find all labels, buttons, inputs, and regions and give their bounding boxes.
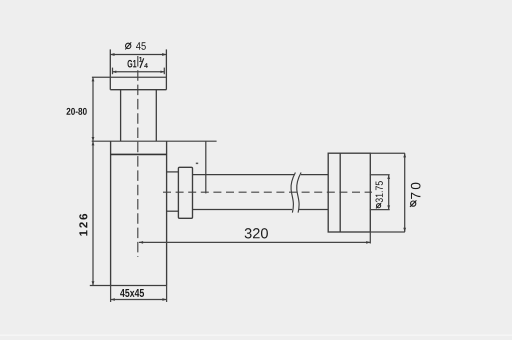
dim 20-80 xyxy=(92,77,95,141)
inlet tube xyxy=(121,90,157,142)
d70 label (rotated) xyxy=(410,183,421,207)
dim d45 xyxy=(110,53,166,56)
dim G1 1/4 xyxy=(113,68,165,75)
outlet stub xyxy=(167,172,179,211)
126 label (rotated) xyxy=(79,214,87,236)
320 label xyxy=(245,228,268,238)
inlet flange body (top fitting) xyxy=(110,49,166,89)
20-80 label xyxy=(66,108,86,115)
G1 1/4 label xyxy=(127,57,147,68)
centerline horizontal (wall-tube axis) xyxy=(163,191,372,193)
compression nut xyxy=(178,167,192,218)
wall tube (right of break) xyxy=(298,175,328,210)
dim 45x45 xyxy=(111,286,167,303)
dim d31.75 xyxy=(370,175,390,210)
wall-tube insertion reference line xyxy=(205,141,207,193)
flange division / 20-80 top extension line xyxy=(92,76,166,78)
dim d70 xyxy=(370,153,406,232)
stray tick xyxy=(196,163,198,165)
top assembly line (body top) xyxy=(92,140,217,142)
wall flange xyxy=(328,153,370,232)
centerline vertical (trap body axis) xyxy=(137,56,139,257)
d31.75 label (rotated) xyxy=(375,181,382,208)
body shoulder line xyxy=(111,153,167,155)
trap body xyxy=(90,141,167,285)
45x45 label xyxy=(120,289,144,297)
dim 320 xyxy=(139,232,371,244)
dim 126 xyxy=(92,141,95,285)
dim d45 label xyxy=(125,42,146,50)
pipe break symbol xyxy=(291,173,301,213)
wall tube (left of break) xyxy=(193,175,295,210)
